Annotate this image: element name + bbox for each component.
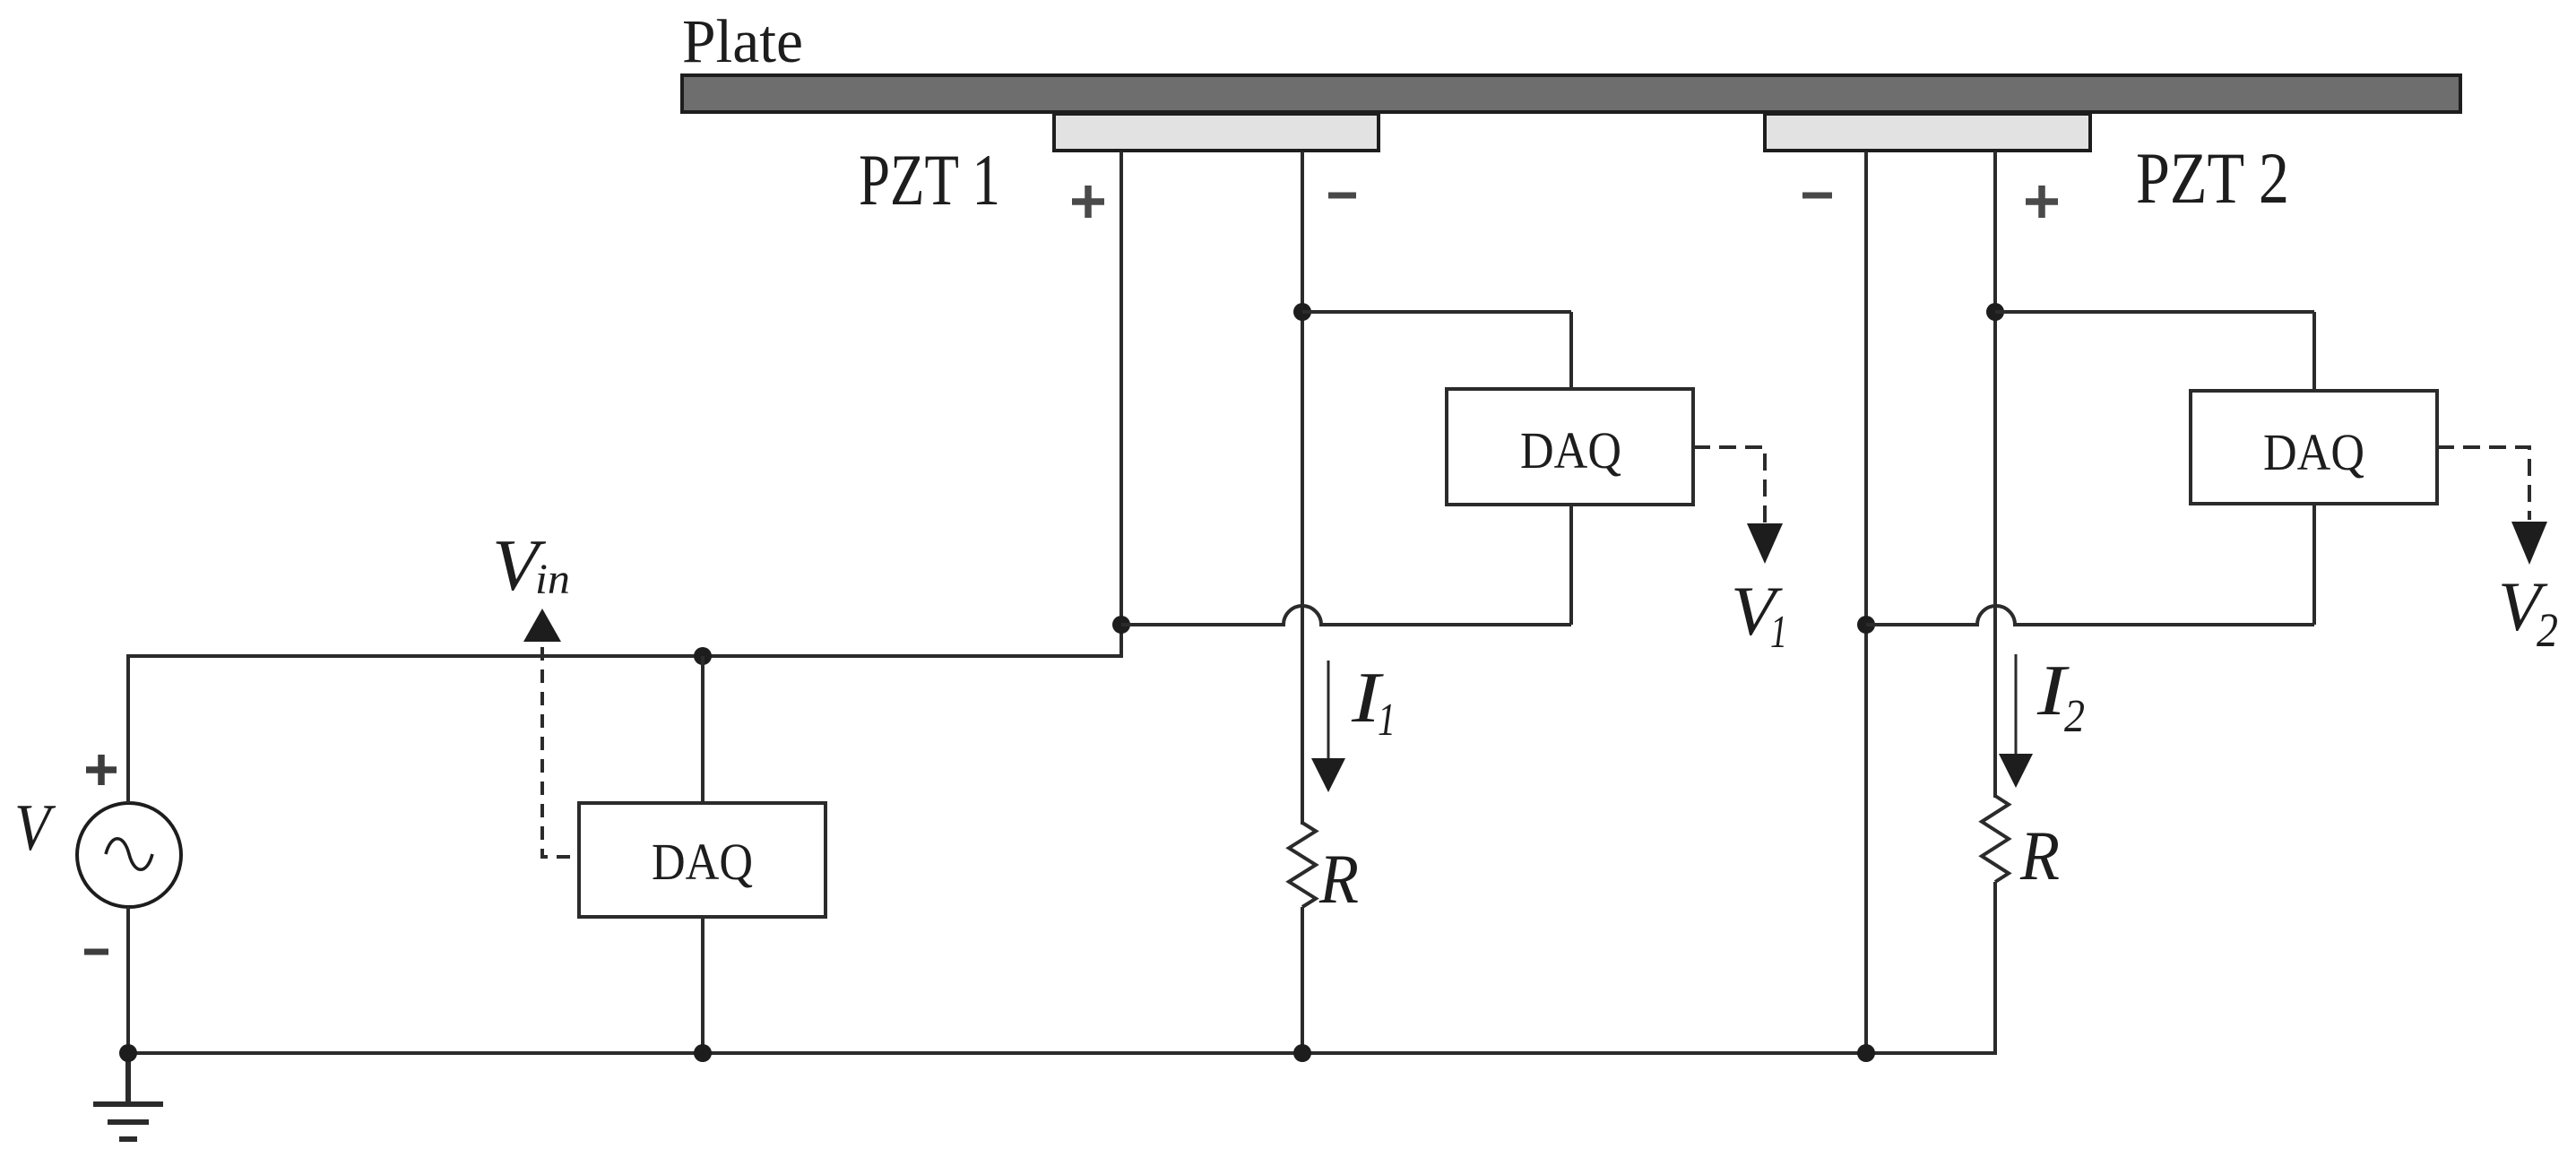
- svg-text:V: V: [14, 791, 56, 865]
- node: PZT1 + / DAQ1 loop: [1112, 616, 1130, 634]
- node: Vin rail / DAQ tap: [694, 647, 712, 665]
- node: R1 / ground rail: [1293, 1044, 1311, 1062]
- wire: DAQ1 loop bottom horizontal with hop: [1121, 606, 1571, 625]
- node: V source / ground rail: [119, 1044, 137, 1062]
- svg-text:PZT 2: PZT 2: [2136, 137, 2289, 219]
- node: PZT1 - / DAQ1 top branch: [1293, 303, 1311, 321]
- svg-text:R: R: [1318, 840, 1359, 918]
- svg-text:PZT 1: PZT 1: [859, 139, 1000, 220]
- svg-text:in: in: [535, 556, 570, 603]
- Vin dashed probe line: [542, 647, 581, 857]
- wire: DAQ1 top branch horizontal: [1302, 310, 1571, 314]
- I2 current arrow: [2015, 654, 2018, 757]
- node: DAQ(Vin) bottom / ground rail: [694, 1044, 712, 1062]
- wire: DAQ1 vertical lower lead: [1569, 505, 1573, 625]
- I1 current arrow: [1327, 661, 1330, 762]
- svg-text:Plate: Plate: [682, 7, 803, 75]
- resistor R2: [1982, 796, 2009, 882]
- svg-text:DAQ: DAQ: [652, 833, 753, 891]
- wire: DAQ2 top branch horizontal: [1995, 310, 2314, 314]
- DAQ box 2: [2191, 391, 2437, 504]
- PZT2 + polarity mark: [2026, 186, 2058, 218]
- PZT 2 body: [1765, 114, 2090, 151]
- svg-text:DAQ: DAQ: [1520, 421, 1621, 479]
- source - mark: [84, 949, 108, 955]
- wire: R2 bottom lead to rail end: [1993, 882, 1997, 1055]
- DAQ box 1: [1447, 389, 1693, 505]
- DAQ box (Vin): [579, 803, 826, 917]
- svg-text:2: 2: [2537, 603, 2558, 657]
- wire: PZT1 - electrode vertical: [1301, 151, 1304, 825]
- wire: DAQ2 vertical lower lead: [2312, 504, 2316, 625]
- wire: DAQ2 loop bottom horizontal with hop: [1866, 606, 2314, 625]
- wire: DAQ(Vin) top lead: [701, 656, 705, 803]
- V1 output arrowhead: [1747, 523, 1783, 564]
- node: PZT2 - / DAQ2 loop: [1857, 616, 1875, 634]
- PZT2 - polarity mark: [1802, 193, 1832, 199]
- sine symbol inside source: [106, 839, 152, 870]
- Vin measurement arrowhead (up): [523, 609, 561, 642]
- wire: V- vertical down to bottom rail: [126, 907, 130, 1055]
- svg-text:R: R: [2019, 816, 2060, 894]
- wire: main Vin horizontal rail: [126, 654, 1123, 658]
- wire: PZT2 + electrode vertical: [1993, 151, 1997, 798]
- wire: bottom ground rail: [128, 1051, 1997, 1055]
- svg-text:1: 1: [1378, 695, 1396, 746]
- plate (structure bar): [682, 75, 2460, 112]
- wire: DAQ(Vin) bottom lead: [701, 917, 705, 1053]
- dashed output of DAQ1: [1693, 447, 1765, 523]
- AC source V circle: [77, 803, 181, 907]
- wire: V+ vertical up to main rail: [126, 656, 130, 803]
- node: PZT2 - / ground rail: [1857, 1044, 1875, 1062]
- ground symbol: [93, 1053, 163, 1139]
- resistor R1: [1289, 823, 1316, 907]
- V2 output arrowhead: [2511, 522, 2547, 565]
- dashed output of DAQ2: [2437, 447, 2529, 520]
- PZT1 + polarity mark: [1072, 186, 1104, 218]
- svg-text:2: 2: [2064, 691, 2085, 742]
- PZT1 - polarity mark: [1328, 193, 1356, 199]
- node: PZT2 + / DAQ2 top branch: [1986, 303, 2004, 321]
- wire: PZT2 - electrode vertical: [1864, 151, 1868, 1055]
- wire: DAQ1 vertical upper lead: [1569, 312, 1573, 389]
- wire: DAQ2 vertical upper lead: [2312, 312, 2316, 391]
- svg-text:1: 1: [1770, 607, 1787, 658]
- source + mark: [86, 755, 117, 785]
- wire: R1 bottom lead: [1301, 907, 1304, 1055]
- svg-text:DAQ: DAQ: [2263, 423, 2364, 481]
- PZT 1 body: [1054, 114, 1379, 151]
- wire: PZT1 + electrode vertical: [1119, 151, 1123, 656]
